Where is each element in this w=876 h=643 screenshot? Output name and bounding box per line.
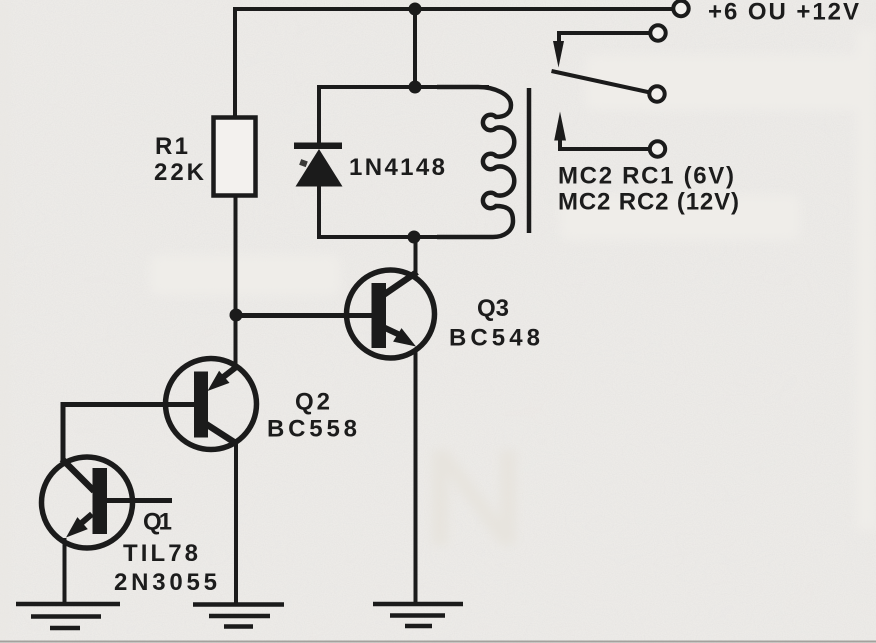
node junction dot Q3 base bbox=[230, 309, 243, 322]
wire relay top horizontal bbox=[319, 85, 489, 89]
relay core bar bbox=[527, 88, 532, 233]
wire Q3 emitter to ground bbox=[414, 349, 418, 604]
svg-text:MC2 RC1 (6V): MC2 RC1 (6V) bbox=[558, 163, 734, 190]
transistor Q2 BC558 bbox=[166, 359, 257, 450]
ground G3 bbox=[373, 604, 463, 626]
wire relay bottom horizontal bbox=[317, 235, 489, 239]
wire top rail bbox=[235, 7, 673, 11]
svg-text:TIL78: TIL78 bbox=[123, 540, 198, 567]
wire Q2 collector to ground bbox=[234, 444, 238, 604]
relay coil K1 bbox=[437, 87, 514, 237]
node junction dot relay top bbox=[409, 81, 422, 94]
wire diode bottom lead bbox=[317, 186, 321, 239]
wire Q1 emitter to ground bbox=[63, 538, 67, 604]
wire Q3 collector bbox=[414, 237, 418, 276]
ink speck bbox=[299, 159, 308, 167]
diode D1 1N4148 bbox=[294, 143, 343, 187]
wire +V to relay top bbox=[413, 9, 417, 87]
relay contact common terminal bbox=[649, 86, 664, 101]
wire NC drop with arrow bbox=[557, 31, 561, 46]
transistor Q3 BC548 bbox=[347, 270, 435, 358]
ground G2 bbox=[193, 605, 284, 627]
wire diode top lead bbox=[317, 85, 321, 143]
svg-text:+6 OU +12V: +6 OU +12V bbox=[708, 0, 859, 26]
ground G1 bbox=[16, 604, 120, 628]
node junction dot relay bottom bbox=[408, 231, 421, 244]
svg-text:BC558: BC558 bbox=[267, 416, 357, 443]
wire Q2 base to Q1 collector bbox=[63, 405, 194, 462]
wire Q1 base lead bbox=[107, 498, 172, 503]
wire NC contact bbox=[559, 31, 649, 35]
transistor Q1 TIL78 bbox=[42, 457, 133, 548]
svg-text:Q2: Q2 bbox=[295, 389, 330, 416]
svg-text:MC2 RC2 (12V): MC2 RC2 (12V) bbox=[558, 189, 739, 216]
wire NO contact bbox=[558, 147, 649, 151]
node junction dot rail bbox=[409, 3, 422, 16]
svg-text:Q3: Q3 bbox=[477, 295, 509, 322]
relay contact NC terminal bbox=[650, 25, 665, 40]
wire NO arrow up bbox=[554, 112, 566, 141]
svg-text:22K: 22K bbox=[154, 159, 205, 186]
wire R1 bottom to Q2 emitter bbox=[234, 195, 238, 366]
svg-text:R1: R1 bbox=[155, 133, 188, 160]
wire node base feed to Q3 bbox=[236, 313, 373, 318]
wire rail corner down to R1 bbox=[233, 7, 237, 118]
relay contact NO terminal bbox=[650, 141, 665, 156]
resistor R1 bbox=[214, 118, 256, 196]
bottom scan edge bbox=[0, 641, 876, 643]
terminal +V bbox=[673, 1, 688, 16]
svg-text:Q1: Q1 bbox=[143, 509, 172, 536]
switch blade bbox=[552, 71, 651, 93]
svg-text:BC548: BC548 bbox=[449, 325, 540, 352]
